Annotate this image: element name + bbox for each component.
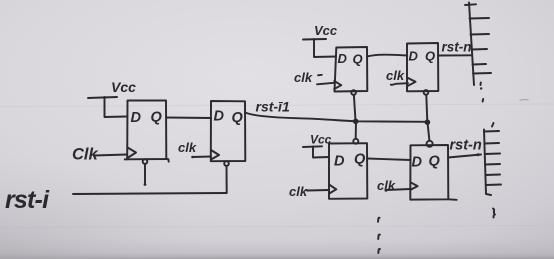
wire U3 reset to rst-i1 [354,95,356,121]
U1 reset bubble [143,159,148,164]
D flip-flop U6 [410,145,456,200]
rst-i1 node label [256,99,290,115]
clk label U5 [289,184,308,199]
svg-text:rst-n: rst-n [450,138,482,154]
U5 set bubble (top) [353,139,358,144]
svg-text:D: D [334,154,345,170]
svg-text:D: D [412,155,423,171]
clk label U1 [72,146,99,164]
clk label U3 [294,70,313,85]
Vcc label U1 supply [111,79,136,95]
D flip-flop U1 [125,101,169,162]
svg-text:D: D [409,49,419,64]
clk label U4 [386,68,405,83]
rst-i wire [73,193,227,194]
D flip-flop U2 [211,101,246,161]
Vcc label U5 supply [310,133,332,147]
wire U1 reset to rst-i line [144,164,146,184]
svg-text:rst-n: rst-n [442,40,472,55]
clk label U6 [377,178,396,193]
wire U4 Q to bus [438,54,471,56]
svg-text:Q: Q [429,154,441,170]
Vcc rail wire (top right) [303,38,326,41]
wire U6 Q to bus [448,155,481,158]
svg-text:Vcc: Vcc [111,79,136,95]
wire U4 reset to rst-i1 [426,95,427,122]
wire U1 Q to U2 D [166,117,211,120]
junction node B [425,119,431,125]
output bus comb (bottom) [484,130,501,196]
junction node A [353,119,359,125]
wire clk to U5 [307,189,329,192]
wire Vcc drop to U1 D [105,97,128,117]
svg-text:Q: Q [151,110,163,126]
wire U2 reset down [226,166,228,193]
continuation ellipsis below U5/U6 [378,218,380,253]
Vcc rail wire (left) [88,97,117,98]
output bus comb (top) [465,3,491,86]
svg-text:clk: clk [178,140,197,155]
U6 set bubble (top) [427,141,433,147]
wire clk to U4 [391,83,408,85]
wire Vcc drop to U5 D [313,146,329,157]
wire U5 set to rst-i1 [355,122,357,138]
rst-n node label (top) [442,40,472,55]
wire clk to U2 [193,156,212,159]
wire Vcc drop to U3 D [314,39,336,57]
svg-text:D: D [338,51,348,66]
wire clk to U1 [94,155,127,156]
clk label U2 [178,140,197,155]
wire U6 set to rst-i1 [428,123,430,141]
Vcc rail wire (bottom right) [303,145,322,148]
wire clk to U6 [386,189,411,190]
svg-text:rst-i: rst-i [5,186,50,214]
squiggle below bottom bus [493,209,495,218]
U3 reset bubble [351,90,356,95]
svg-text:Q: Q [353,52,363,67]
svg-text:clk: clk [386,68,405,83]
wire U3 Q to U4 D [367,55,407,57]
svg-text:rst-ī1: rst-ī1 [256,99,290,115]
wire U5 Q to U6 D [367,159,411,161]
svg-text:Q: Q [425,49,435,64]
Vcc label U3 supply [314,23,338,38]
svg-text:clk: clk [294,70,313,85]
rst-i node label [5,186,50,214]
svg-text:Vcc: Vcc [314,23,338,38]
D flip-flop U5 [329,143,367,199]
wire clk to U3 [317,83,334,85]
D flip-flop U4 [407,43,438,91]
svg-text:D: D [214,109,225,125]
rst-n node label (bottom) [450,138,482,154]
U2 reset bubble [224,161,229,166]
rst-i1 net wire [245,113,427,122]
faint paper rule lines [0,104,554,107]
svg-text:Q: Q [232,110,244,126]
faint smudge near right edge [520,100,528,101]
ellipsis dots between buses [480,83,494,127]
svg-text:Q: Q [354,152,366,168]
svg-text:Clk: Clk [72,146,99,164]
U4 reset bubble [424,90,429,95]
D flip-flop U3 [334,47,367,92]
svg-text:D: D [131,110,142,126]
svg-text:clk: clk [289,184,308,199]
